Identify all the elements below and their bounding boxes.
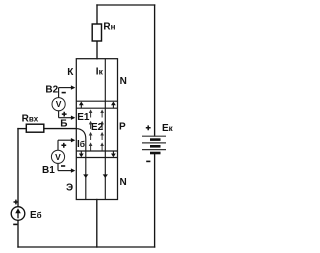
wire left side upper (node Б corner to Еб +) (17, 129, 19, 207)
emitter junction arrow right (111, 151, 116, 157)
svg-text:В1: В1 (42, 165, 55, 176)
battery Ек (142, 123, 174, 162)
svg-text:Еб: Еб (30, 210, 42, 221)
svg-text:К: К (67, 67, 74, 78)
svg-text:N: N (120, 177, 127, 188)
wire left side lower (Еб - to bottom rail) (17, 220, 19, 247)
collector junction arrow left (79, 102, 84, 108)
wire top rail (97, 4, 155, 6)
transistor structure box (76, 59, 117, 200)
svg-text:V: V (56, 99, 62, 109)
plus of В2 (62, 112, 67, 117)
resistor Rвх (22, 113, 44, 132)
wire Rн top lead (96, 5, 98, 24)
svg-text:Б: Б (60, 119, 67, 130)
wire Rн bottom lead to collector (96, 41, 98, 59)
plus of В1 (61, 143, 66, 148)
collector junction lower line (76, 107, 117, 109)
collector junction arrow right (111, 102, 116, 108)
wire Rвх right lead to node Б (44, 128, 77, 130)
minus of Ек (146, 161, 150, 163)
collector junction upper line (76, 100, 117, 102)
svg-text:P: P (119, 122, 126, 133)
wire right side upper (to battery +) (154, 5, 156, 136)
voltmeter В1 (42, 138, 75, 176)
svg-text:Rн: Rн (103, 22, 115, 33)
svg-text:V: V (55, 152, 61, 162)
wire bottom rail (18, 246, 155, 248)
wire right side lower (battery - to bottom rail) (154, 154, 156, 247)
svg-text:Ек: Ек (162, 123, 174, 134)
emitter junction upper line (76, 150, 117, 152)
wire Rвх left lead (18, 128, 26, 130)
arrowhead on base current path (83, 174, 88, 178)
wire collector current path (inner vertical line) (104, 59, 106, 200)
svg-text:N: N (120, 76, 127, 87)
source Еб (11, 200, 41, 226)
resistor Rн (92, 22, 115, 41)
wire emitter to bottom rail (96, 200, 98, 248)
field arrows grid in base region (E1/E2) (89, 109, 104, 150)
svg-text:Э: Э (66, 183, 73, 194)
minus of В1 (61, 165, 65, 167)
svg-text:Iк: Iк (96, 67, 104, 78)
svg-text:В2: В2 (45, 84, 58, 95)
svg-text:Е1: Е1 (77, 112, 90, 123)
minus of В2 (62, 92, 66, 94)
wire base lead into structure (node Б arc) (76, 129, 86, 200)
svg-text:Е2: Е2 (91, 122, 104, 133)
plus of Еб (14, 200, 19, 205)
emitter junction arrow left (79, 151, 84, 157)
voltmeter В2 (45, 84, 75, 120)
emitter junction lower line (76, 157, 117, 159)
svg-text:Iб: Iб (77, 139, 85, 150)
minus of Еб (13, 224, 17, 226)
arrowhead on collector current path (103, 174, 108, 178)
svg-text:Rвх: Rвх (22, 113, 39, 124)
plus of Ек (146, 125, 151, 130)
